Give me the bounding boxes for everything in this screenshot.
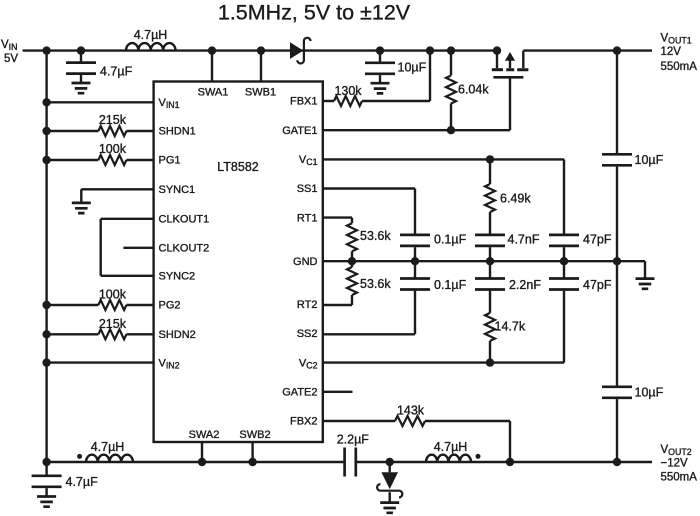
svg-text:SWA1: SWA1 (198, 86, 229, 98)
wire RT1 (323, 218, 352, 224)
wire top rail right of transistor (523, 49, 652, 51)
resistor 14.7k (485, 291, 526, 363)
capacitor 4.7uF bottom (32, 462, 98, 497)
svg-text:6.49k: 6.49k (500, 192, 531, 206)
ground GND rail right (636, 261, 655, 289)
resistor 100k PG1 (42, 142, 153, 165)
node junction VIN rail (42, 46, 50, 54)
wire SS1 (323, 189, 415, 235)
svg-text:4.7µH: 4.7µH (91, 440, 125, 454)
svg-text:0.1µF: 0.1µF (434, 278, 467, 292)
svg-text:10µF: 10µF (635, 386, 664, 400)
svg-text:100k: 100k (99, 142, 127, 156)
svg-text:4.7µF: 4.7µF (66, 475, 99, 489)
wire top rail left of transistor (23, 49, 498, 51)
capacitor 10uF after diode (365, 51, 427, 84)
wire bottom rail right (357, 461, 652, 463)
wire VIN1 (42, 98, 153, 106)
node junction cap branch (77, 46, 85, 54)
svg-text:GATE1: GATE1 (282, 125, 317, 137)
svg-text:SYNC1: SYNC1 (159, 184, 196, 196)
svg-text:SWB1: SWB1 (245, 86, 276, 98)
ground diode D2 (380, 503, 399, 513)
svg-text:−12V: −12V (661, 457, 689, 469)
wire VC2 (323, 358, 564, 366)
svg-text:550mA: 550mA (661, 61, 698, 73)
node junction diode branch (386, 458, 394, 466)
wire GND rail (323, 257, 645, 265)
node junction FBX1 riser (426, 46, 434, 54)
svg-text:215k: 215k (99, 317, 127, 331)
svg-text:130k: 130k (334, 84, 362, 98)
svg-text:CLKOUT2: CLKOUT2 (159, 243, 210, 255)
resistor 53.6k RT2 (347, 261, 391, 305)
svg-text:GATE2: GATE2 (282, 387, 317, 399)
svg-text:10µF: 10µF (635, 153, 664, 167)
wire SYNC1 (81, 189, 153, 203)
node junction gate wire (447, 126, 455, 134)
resistor 53.6k RT1 (347, 223, 391, 261)
svg-text:LT8582: LT8582 (217, 160, 259, 174)
transistor PMOS output disconnect (492, 46, 529, 77)
capacitor 2.2uF series (337, 433, 370, 477)
svg-text:FBX2: FBX2 (290, 416, 318, 428)
svg-text:RT2: RT2 (297, 299, 318, 311)
svg-text:5V: 5V (4, 53, 18, 65)
svg-text:GND: GND (293, 256, 318, 268)
resistor 215k SHDN2 (42, 317, 153, 340)
svg-text:RT1: RT1 (297, 212, 318, 224)
svg-text:SS1: SS1 (297, 183, 318, 195)
node VOUT1 label (661, 33, 698, 74)
node junction 10uF branch (376, 46, 384, 54)
wire FBX2 riser (509, 421, 511, 462)
capacitor 10uF VOUT2 (602, 261, 664, 462)
svg-text:SWB2: SWB2 (239, 429, 270, 441)
resistor 215k SHDN1 (42, 113, 153, 136)
svg-text:10µF: 10µF (398, 61, 427, 75)
wire RT2 (323, 304, 352, 306)
node junction 143k riser (506, 458, 514, 466)
wire CLKOUT2 stub (123, 247, 153, 249)
svg-text:PG1: PG1 (159, 155, 181, 167)
diode D2 schottky bottom (377, 462, 402, 503)
svg-text:2.2µF: 2.2µF (337, 433, 370, 447)
capacitor 0.1uF top (400, 233, 467, 262)
resistor 143k FBX2 (323, 404, 510, 427)
wire SS2 (323, 291, 415, 335)
wire SWA2 stub (198, 442, 206, 466)
node junction VOUT2 cap (613, 458, 621, 466)
svg-text:14.7k: 14.7k (495, 320, 526, 334)
inductor 4.7uH top (126, 28, 176, 51)
wire VIN2 (42, 358, 153, 366)
svg-text:12V: 12V (661, 46, 682, 58)
title (218, 1, 411, 25)
ground 10uF cap (371, 83, 390, 93)
node junction bottom left (42, 458, 50, 466)
svg-text:47pF: 47pF (583, 278, 612, 292)
svg-text:4.7µH: 4.7µH (434, 440, 468, 454)
svg-text:SS2: SS2 (297, 328, 318, 340)
diode D1 schottky top (290, 38, 311, 64)
svg-text:1.5MHz, 5V to ±12V: 1.5MHz, 5V to ±12V (218, 1, 411, 25)
resistor 6.49k (485, 159, 531, 234)
svg-text:47pF: 47pF (583, 233, 612, 247)
svg-text:53.6k: 53.6k (360, 229, 391, 243)
capacitor 47pF bottom (549, 261, 612, 362)
ground bottom cap (37, 497, 56, 507)
resistor 130k FBX1 (323, 84, 430, 106)
svg-text:100k: 100k (99, 288, 127, 302)
svg-text:143k: 143k (397, 404, 425, 418)
wire SWB2 stub (248, 442, 256, 466)
svg-text:SYNC2: SYNC2 (159, 271, 196, 283)
wire SWA1 stub (208, 46, 216, 81)
wire VC1 (323, 155, 564, 163)
capacitor 0.1uF bottom (400, 261, 467, 292)
wire bottom rail left (47, 461, 344, 463)
wire GATE2 stub (323, 391, 353, 393)
resistor 6.04k (446, 51, 489, 131)
wire FBX1 riser (429, 51, 431, 101)
wire CLKOUT1 to SYNC2 loop (101, 219, 154, 276)
ground input cap top (72, 83, 91, 93)
node VIN label (1, 39, 18, 65)
node junction 6.04k top (447, 46, 455, 54)
svg-text:PG2: PG2 (159, 300, 181, 312)
svg-text:4.7nF: 4.7nF (508, 233, 540, 247)
inductor 4.7uH bottom right (426, 440, 481, 462)
resistor 100k PG2 (42, 288, 153, 311)
svg-text:FBX1: FBX1 (290, 96, 318, 108)
capacitor 4.7nF (475, 233, 540, 262)
svg-text:53.6k: 53.6k (360, 277, 391, 291)
capacitor 4.7uF input top (66, 51, 133, 83)
capacitor 2.2nF (475, 261, 541, 292)
wire left input rail (45, 51, 47, 462)
svg-text:SWA2: SWA2 (189, 429, 220, 441)
svg-text:550mA: 550mA (661, 472, 698, 484)
wire SWB1 stub (257, 46, 265, 81)
svg-text:4.7µH: 4.7µH (134, 28, 168, 42)
ground SYNC1 (72, 203, 91, 213)
svg-text:CLKOUT1: CLKOUT1 (159, 214, 210, 226)
svg-text:6.04k: 6.04k (458, 83, 489, 97)
svg-text:SHDN2: SHDN2 (159, 329, 196, 341)
svg-text:2.2nF: 2.2nF (509, 278, 541, 292)
capacitor 47pF top (549, 159, 612, 261)
capacitor 10uF VOUT1 (602, 51, 664, 262)
svg-text:215k: 215k (99, 113, 127, 127)
svg-text:4.7µF: 4.7µF (100, 65, 133, 79)
svg-text:0.1µF: 0.1µF (434, 233, 467, 247)
svg-text:SHDN1: SHDN1 (159, 126, 196, 138)
IC LT8582 (154, 82, 323, 443)
inductor 4.7uH bottom left (77, 440, 133, 462)
wire GATE1 (323, 77, 510, 130)
node junction VOUT1 cap (613, 46, 621, 54)
node VOUT2 label (661, 444, 698, 484)
